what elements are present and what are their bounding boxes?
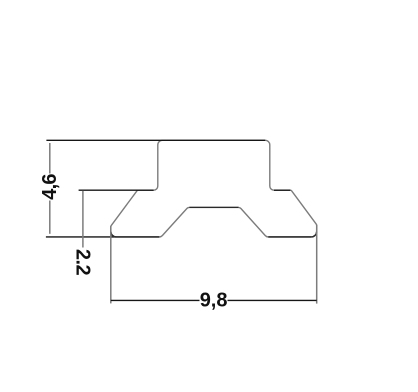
black horizontal: bottom extension line + bottom edge left part: [46, 236, 159, 238]
dimension line 4,6 lower segment: [49, 201, 51, 234]
black horizontal: left shoulder extension + shoulder edge: [79, 189, 154, 191]
svg-text:2.2: 2.2: [72, 249, 94, 276]
bottom-right corner fillet: [311, 232, 316, 237]
dimension line 9,8 right segment: [228, 299, 317, 301]
dimension line 4,6 upper segment: [49, 143, 51, 174]
dimension line 2.2: [82, 191, 84, 248]
black horizontal: right shoulder edge: [274, 189, 290, 191]
left extension line of 9,8: [110, 226, 112, 303]
dimension line 9,8 left segment: [111, 299, 200, 301]
svg-text:4,6: 4,6: [39, 174, 61, 200]
right extension line of 9,8: [316, 225, 318, 304]
bottom-left corner fillet: [111, 232, 116, 237]
black horizontal: bottom edge right part: [268, 236, 311, 238]
profile outline: [111, 140, 317, 237]
black horizontal: notch top edge: [189, 206, 238, 208]
svg-text:9,8: 9,8: [200, 289, 228, 311]
black horizontal: top extension line + top edge: [46, 139, 265, 141]
